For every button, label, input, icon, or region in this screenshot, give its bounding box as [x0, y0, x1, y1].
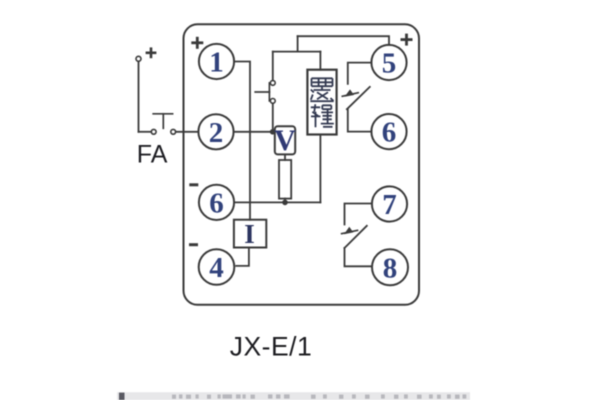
wire: contact to terminal 6 right: [348, 109, 372, 131]
svg-text:JX-E/1: JX-E/1: [230, 332, 313, 362]
wire: top rail to terminal 5: [298, 36, 389, 45]
label: - polarity terminal 6: [189, 183, 198, 186]
wire: button FA to terminal 2: [176, 131, 199, 133]
svg-text:5: 5: [382, 48, 397, 80]
wire: supply lead down from + terminal: [138, 62, 140, 132]
pushbutton FA actuator stem: [162, 114, 164, 129]
output contact blade 5-6: [347, 87, 370, 109]
current element I box: [234, 220, 266, 248]
svg-text:6: 6: [209, 187, 224, 219]
pushbutton FA contact (right pole): [171, 129, 176, 134]
arrow of output contact 7-8: [341, 227, 359, 234]
wire: start contact to node at V box: [272, 103, 274, 131]
wire: V box to resistor stub: [284, 154, 286, 160]
wire: resistor bottom to lower rail: [284, 199, 286, 203]
logic glyph 逻 (hand drawn): [310, 78, 333, 101]
svg-text:V: V: [274, 124, 296, 157]
output contact blade 7-8: [345, 226, 367, 248]
svg-text:FA: FA: [137, 141, 168, 169]
junction: start contact / terminal 2 / V box: [270, 129, 276, 135]
pushbutton FA actuator bar: [153, 113, 172, 115]
wire: inner top rail: [273, 51, 321, 53]
terminal 1: [199, 44, 234, 79]
label: + polarity terminal 1: [191, 37, 203, 49]
node: external + supply terminal: [136, 56, 141, 61]
label: + at external supply: [146, 47, 157, 58]
resistor R: [279, 160, 291, 199]
svg-text:4: 4: [209, 252, 224, 284]
terminal 5: [371, 45, 406, 80]
start contact upper pole: [270, 81, 275, 86]
svg-text:2: 2: [209, 117, 224, 149]
svg-text:8: 8: [383, 253, 398, 285]
wire: logic box bottom to lower rail: [319, 135, 321, 203]
label: - polarity terminal 4: [189, 243, 198, 246]
wire: supply lead to button FA: [139, 131, 152, 133]
pushbutton FA contact (left pole): [151, 129, 156, 134]
wire: I box to terminal 4: [236, 248, 249, 266]
wire: inner rail to logic box top: [319, 52, 321, 70]
terminal 2: [198, 114, 233, 149]
wire: riser from inner rail to top rail: [297, 36, 299, 51]
terminal 6 left: [199, 185, 234, 220]
logic block 逻辑: [307, 70, 336, 135]
svg-text:I: I: [244, 219, 255, 249]
wire: lower rail from terminal 6 left: [234, 201, 320, 203]
label: + polarity terminal 5: [401, 34, 413, 46]
svg-text:7: 7: [382, 189, 397, 221]
svg-text:6: 6: [382, 117, 397, 149]
junction: resistor bottom on lower rail: [282, 200, 288, 206]
terminal 7: [372, 186, 407, 221]
wire: terminal 7 to output contact stub: [345, 204, 372, 225]
start contact actuator bar: [255, 91, 269, 93]
arrow of output contact 5-6: [342, 89, 360, 96]
wire: terminal 1 to I box (vertical drop): [234, 62, 250, 220]
bottom cropped text band: [117, 392, 470, 400]
terminal 8: [372, 249, 408, 285]
wire: contact to terminal 8: [345, 248, 373, 266]
wire: terminal 5 to output contact stub: [348, 63, 372, 84]
terminal 4: [199, 249, 235, 285]
wire: start contact branch vertical (upper): [272, 52, 274, 81]
wire: terminal 2 to V box: [234, 131, 275, 133]
relay case outline: [184, 24, 420, 305]
start contact lower pole: [270, 99, 275, 104]
measuring element V box: [275, 126, 295, 154]
logic glyph 辑 (hand drawn): [311, 104, 334, 127]
start contact actuator stem: [268, 83, 270, 101]
svg-text:1: 1: [209, 47, 224, 79]
terminal 6 right: [371, 114, 406, 149]
